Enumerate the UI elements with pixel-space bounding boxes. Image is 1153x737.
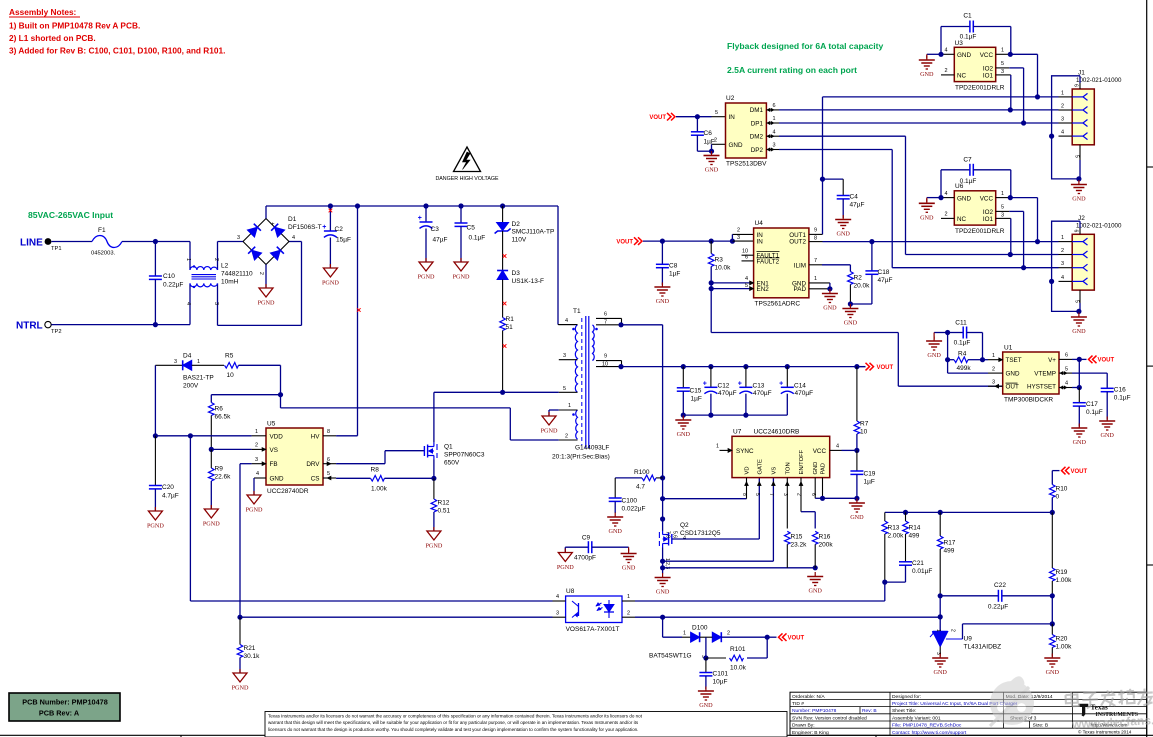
capacitor C20	[154, 436, 156, 486]
pin U6.4 GND	[941, 197, 954, 199]
svg-text:3: 3	[737, 235, 740, 241]
svg-text:7,8: 7,8	[665, 531, 671, 538]
pin U3.5 IO2	[996, 67, 1010, 69]
svg-text:2: 2	[992, 366, 995, 372]
resistor R10	[1050, 485, 1056, 498]
svg-text:470µF: 470µF	[753, 390, 772, 397]
svg-text:U5: U5	[267, 421, 276, 428]
svg-text:D1: D1	[288, 216, 297, 223]
svg-text:4: 4	[945, 48, 948, 54]
svg-text:5: 5	[1065, 366, 1068, 372]
pin U8.4	[553, 600, 566, 602]
capacitor C4	[842, 179, 844, 195]
op-amp U5 UCC28740DR controller	[266, 428, 323, 485]
resistor R8	[371, 476, 385, 482]
svg-text:9: 9	[604, 354, 607, 360]
resistor R3	[710, 241, 712, 253]
svg-text:2: 2	[255, 443, 258, 449]
svg-text:warrant that this design will: warrant that this design will meet the s…	[268, 720, 639, 725]
power PGND T1 bias	[548, 412, 550, 416]
pin U4.10 FAULT1	[742, 254, 754, 256]
svg-text:Texas: Texas	[1091, 704, 1109, 712]
svg-text:5: 5	[1001, 61, 1004, 67]
svg-text:R16: R16	[819, 534, 831, 541]
svg-text:G144093LF: G144093LF	[575, 445, 609, 452]
wire L2 pin3 to bridge pin4	[218, 324, 302, 326]
svg-text:R100: R100	[634, 469, 650, 476]
svg-text:VS: VS	[771, 467, 777, 475]
svg-text:470µF: 470µF	[718, 390, 737, 397]
svg-text:PGND: PGND	[258, 300, 275, 307]
pin U2.3 DP2	[766, 149, 779, 151]
svg-text:NC: NC	[957, 216, 967, 223]
svg-text:EN/TOFF: EN/TOFF	[799, 449, 805, 474]
svg-text:DM1: DM1	[750, 107, 764, 114]
svg-text:7: 7	[814, 258, 817, 264]
resistor R20	[1051, 624, 1053, 635]
svg-text:2.00k: 2.00k	[888, 533, 905, 540]
svg-text:R9: R9	[215, 466, 224, 473]
svg-text:DP1: DP1	[751, 120, 764, 127]
svg-text:C19: C19	[864, 471, 876, 478]
svg-text:8: 8	[814, 235, 817, 241]
svg-text:GND: GND	[656, 589, 670, 596]
svg-text:F1: F1	[98, 227, 106, 234]
svg-text:10: 10	[602, 362, 608, 368]
pin U2.6 DM1	[766, 109, 779, 111]
svg-text:VS: VS	[270, 447, 278, 454]
wire bias node to T1 pin2	[280, 395, 282, 408]
svg-text:R8: R8	[371, 467, 380, 474]
diode D2 TVS	[502, 206, 504, 223]
pin U7.3 TON	[786, 478, 788, 529]
svg-text:10.0k: 10.0k	[715, 265, 732, 272]
svg-text:GND: GND	[920, 214, 934, 221]
ground GND U9	[939, 654, 941, 659]
diode bridge D1	[243, 219, 289, 265]
svg-text:6: 6	[604, 312, 607, 318]
svg-text:1µF: 1µF	[691, 396, 702, 403]
wire F1 to L2 pin1	[122, 241, 190, 243]
diode D3	[497, 270, 508, 272]
svg-text:VCC: VCC	[980, 195, 994, 202]
capacitor C11	[948, 332, 964, 334]
svg-text:0.1µF: 0.1µF	[469, 235, 486, 242]
power flag VOUT U4	[634, 237, 638, 245]
pin U7.4 VCC	[830, 449, 842, 451]
svg-text:D3: D3	[512, 270, 521, 277]
capacitor C13	[745, 367, 747, 388]
svg-text:4: 4	[745, 276, 748, 282]
TI logo	[1079, 704, 1088, 716]
power PGND bridge	[265, 284, 267, 288]
svg-text:0.01µF: 0.01µF	[912, 568, 932, 575]
svg-text:6: 6	[745, 254, 748, 260]
ground GND U4	[829, 289, 831, 294]
svg-text:DM2: DM2	[750, 134, 764, 141]
svg-text:5: 5	[745, 283, 748, 289]
svg-text:IO2: IO2	[983, 65, 994, 72]
svg-text:VOUT: VOUT	[1098, 358, 1115, 364]
wire U3 VCC to J1 pin1	[1010, 53, 1037, 55]
resistor R4	[947, 333, 949, 374]
svg-text:VOUT: VOUT	[616, 239, 633, 245]
svg-text:499k: 499k	[957, 365, 972, 372]
wire VCC node	[854, 448, 859, 453]
resistor R16	[812, 531, 818, 544]
wire DRV to Q1 gate	[336, 463, 385, 465]
svg-text:ILIM: ILIM	[794, 262, 806, 269]
pin T1.9 and T1.10	[596, 360, 622, 362]
svg-text:6: 6	[1065, 353, 1068, 359]
svg-text:PGND: PGND	[453, 274, 470, 281]
svg-text:PGND: PGND	[232, 685, 249, 692]
ground GND J2	[1078, 313, 1080, 318]
capacitor C9	[565, 546, 588, 548]
svg-text:1: 1	[1001, 48, 1004, 54]
svg-text:C8: C8	[669, 263, 678, 270]
svg-text:NC: NC	[957, 72, 967, 79]
svg-text:1: 1	[197, 359, 200, 365]
svg-text:licensors do not warrant that: licensors do not warrant that the design…	[268, 727, 638, 732]
svg-text:EN2: EN2	[757, 286, 770, 293]
svg-text:Assembly Notes:: Assembly Notes:	[9, 7, 76, 17]
inductor L2 common-mode choke	[189, 242, 191, 271]
svg-text:2: 2	[945, 68, 948, 74]
svg-text:470µF: 470µF	[795, 390, 814, 397]
wire D100 mid node	[705, 637, 707, 658]
pin U5.8 HV	[323, 435, 336, 437]
svg-text:3: 3	[556, 610, 559, 616]
svg-text:Flyback designed for 6A total: Flyback designed for 6A total capacity	[727, 41, 884, 51]
transistor Q2 CSD17312Q5	[671, 534, 673, 544]
svg-text:GND: GND	[836, 231, 850, 238]
svg-text:GND: GND	[608, 528, 622, 535]
svg-text:0.022µF: 0.022µF	[622, 506, 646, 513]
svg-text:R101: R101	[730, 646, 746, 653]
wire VS sense row	[663, 560, 774, 562]
svg-text:PCB Rev: A: PCB Rev: A	[39, 708, 80, 717]
svg-text:+: +	[271, 222, 275, 228]
wire U6 VCC to J2 pin1	[1010, 197, 1037, 199]
svg-text:SMCJ110A-TP: SMCJ110A-TP	[512, 229, 555, 236]
ground GND C16	[1106, 417, 1108, 422]
svg-text:0.22µF: 0.22µF	[988, 604, 1008, 611]
svg-text:1: 1	[1061, 90, 1064, 96]
svg-text:PAD: PAD	[821, 463, 827, 475]
power PGND R12	[433, 527, 435, 531]
svg-text:1: 1	[185, 258, 191, 261]
pin U1.2 GND	[988, 372, 1003, 374]
svg-text:2: 2	[714, 138, 717, 144]
svg-text:R15: R15	[791, 534, 803, 541]
pin U6.3 IO1	[996, 217, 1011, 219]
svg-text:BAS21-TP: BAS21-TP	[183, 375, 214, 382]
svg-text:D2: D2	[512, 221, 521, 228]
svg-text:R2: R2	[854, 275, 863, 282]
capacitor C14	[786, 367, 788, 388]
svg-text:1002-021-01000: 1002-021-01000	[1076, 77, 1122, 84]
svg-text:R17: R17	[944, 540, 956, 547]
svg-text:GND: GND	[1073, 439, 1087, 446]
svg-text:TMP300BIDCKR: TMP300BIDCKR	[1004, 397, 1053, 404]
svg-text:C7: C7	[963, 157, 972, 164]
svg-text:TID #: TID #	[792, 701, 804, 707]
watermark logo circle	[990, 676, 1034, 726]
svg-text:VTEMP: VTEMP	[1034, 370, 1056, 377]
svg-text:499: 499	[909, 533, 920, 540]
svg-text:R21: R21	[244, 645, 256, 652]
svg-text:1: 1	[935, 629, 941, 632]
pin U8.1	[622, 600, 635, 602]
wire HV rail	[265, 206, 267, 219]
svg-text:TPD2E001DRLR: TPD2E001DRLR	[955, 85, 1005, 92]
svg-text:R5: R5	[225, 353, 234, 360]
wire J1 shield loop	[1079, 83, 1081, 89]
svg-text:7: 7	[604, 320, 607, 326]
svg-text:1: 1	[683, 631, 686, 637]
svg-text:C10: C10	[163, 273, 175, 280]
svg-text:0.51: 0.51	[438, 508, 451, 515]
svg-text:GND: GND	[808, 588, 822, 595]
svg-text:VOUT: VOUT	[788, 636, 805, 642]
svg-text:R20: R20	[1056, 636, 1068, 643]
svg-text:GND: GND	[1006, 370, 1020, 377]
resistor R17	[939, 512, 941, 536]
svg-text:23.2k: 23.2k	[791, 542, 808, 549]
svg-text:650V: 650V	[444, 460, 460, 467]
capacitor C21	[899, 561, 912, 563]
optocoupler U8 VOS617A	[566, 596, 622, 623]
wire U8 pin2 row	[635, 616, 940, 618]
capacitor C16	[1101, 387, 1114, 389]
svg-text:Rev: B: Rev: B	[862, 708, 877, 714]
svg-text:R6: R6	[215, 406, 224, 413]
svg-text:0.1µF: 0.1µF	[954, 340, 971, 347]
svg-text:C9: C9	[582, 535, 591, 542]
svg-text:4: 4	[773, 129, 776, 135]
resistor R15	[785, 531, 791, 544]
svg-text:GND: GND	[850, 514, 864, 521]
svg-text:4: 4	[565, 318, 568, 324]
wire U6 GND to ground	[927, 197, 941, 199]
svg-text:5,6: 5,6	[672, 531, 678, 538]
svg-text:744821110: 744821110	[221, 271, 253, 278]
svg-text:DP2: DP2	[751, 147, 764, 154]
pin U4.1 GND	[809, 282, 830, 284]
power PGND C5	[460, 258, 462, 262]
svg-text:U8: U8	[566, 588, 575, 595]
svg-text:D100: D100	[692, 625, 708, 632]
svg-text:DANGER HIGH VOLTAGE: DANGER HIGH VOLTAGE	[435, 176, 499, 182]
svg-text:4.7: 4.7	[636, 484, 645, 491]
pin U1.5 VTEMP	[1059, 372, 1072, 374]
svg-text:PGND: PGND	[557, 564, 574, 571]
svg-text:110V: 110V	[512, 237, 527, 244]
svg-text:GND: GND	[957, 52, 971, 59]
svg-text:3) Added for Rev B: C100, C101: 3) Added for Rev B: C100, C101, D100, R1…	[9, 46, 225, 56]
wire VOUT rail from T1 910	[618, 364, 623, 369]
pin U4.9 OUT1	[809, 233, 823, 235]
pin U4.4 EN1	[711, 282, 753, 284]
svg-text:C11: C11	[955, 320, 967, 327]
svg-text:C20: C20	[162, 484, 174, 491]
pin U3.2 NC	[941, 74, 954, 76]
svg-text:2: 2	[950, 629, 956, 632]
svg-text:GATE: GATE	[757, 459, 763, 474]
svg-text:UCC28740DR: UCC28740DR	[267, 488, 309, 495]
svg-text:4.7µF: 4.7µF	[162, 493, 179, 500]
svg-text:C17: C17	[1086, 401, 1098, 408]
svg-text:C12: C12	[718, 382, 730, 389]
svg-text:DRV: DRV	[306, 461, 320, 468]
pin U3.3 IO1	[996, 74, 1011, 76]
svg-text:CSD17312Q5: CSD17312Q5	[680, 530, 721, 537]
capacitor C17	[1078, 388, 1080, 403]
capacitor C15	[682, 367, 684, 388]
svg-text:HYSTSET: HYSTSET	[1027, 384, 1056, 391]
capacitor C5	[460, 206, 462, 223]
svg-text:1: 1	[255, 429, 258, 435]
svg-text:22.6k: 22.6k	[215, 474, 232, 481]
power flag VOUT R10	[1066, 467, 1070, 475]
wire C11 left to GND	[945, 330, 950, 335]
svg-text:TON: TON	[785, 462, 791, 474]
svg-text:5: 5	[1073, 155, 1079, 158]
svg-text:VOUT: VOUT	[649, 115, 666, 121]
wire Q2 gate to U7 GATE	[672, 538, 760, 540]
svg-text:Number: PMP10478: Number: PMP10478	[792, 708, 837, 714]
svg-text:FAULT2: FAULT2	[757, 258, 780, 265]
svg-text:TPS2561ADRC: TPS2561ADRC	[755, 301, 801, 308]
wire U8 pin1 to feedback node	[635, 600, 885, 602]
power flag VOUT D100	[767, 636, 776, 638]
transistor U9 TL431AIDBZ	[933, 631, 948, 633]
svg-text:15µF: 15µF	[336, 237, 351, 244]
svg-text:U9: U9	[964, 636, 973, 643]
pin U4.8 OUT2	[809, 241, 823, 243]
svg-text:6: 6	[1073, 230, 1079, 233]
op-amp U2 TPS2513DBV	[726, 103, 767, 158]
svg-text:+: +	[779, 381, 783, 388]
svg-text:3: 3	[174, 359, 177, 365]
danger high voltage symbol	[454, 147, 481, 172]
wire U4 IN2 jog	[732, 233, 753, 235]
wire feedback top row	[1050, 510, 1055, 515]
power PGND C20	[154, 507, 156, 511]
watermark text	[1065, 688, 1153, 710]
svg-text:U3: U3	[955, 40, 964, 47]
power PGND C3	[425, 258, 427, 262]
svg-text:2: 2	[796, 493, 802, 496]
svg-text:5: 5	[1073, 300, 1079, 303]
capacitor C3	[425, 206, 427, 222]
svg-text:5: 5	[563, 386, 566, 392]
svg-text:3: 3	[1061, 261, 1064, 267]
svg-text:C14: C14	[794, 382, 806, 389]
svg-text:GND: GND	[920, 71, 934, 78]
svg-text:R4: R4	[958, 351, 967, 358]
wire DP1 to J1 pin3	[779, 122, 1059, 124]
wire T1 pin1 to PGND	[549, 409, 559, 411]
wire C22 row	[938, 593, 943, 598]
svg-text:1µF: 1µF	[669, 271, 680, 278]
svg-text:GND: GND	[270, 476, 284, 483]
svg-text:20:1:3(Pri:Sec:Bias): 20:1:3(Pri:Sec:Bias)	[552, 454, 610, 461]
svg-text:TSET: TSET	[1006, 357, 1022, 364]
diode D4	[155, 364, 182, 366]
svg-text:TL431AIDBZ: TL431AIDBZ	[964, 644, 1002, 651]
svg-text:LINE: LINE	[20, 238, 43, 249]
pin T1.4	[559, 324, 578, 326]
power flag VOUT U1	[1072, 358, 1087, 360]
wire C11 right to TSET	[982, 333, 984, 360]
wire VOUT to U4 IN	[643, 240, 732, 242]
svg-text:2: 2	[1061, 104, 1064, 110]
svg-text:OUT2: OUT2	[789, 239, 806, 246]
wire R2 to C18 ground	[850, 303, 872, 305]
ground GND C4	[842, 215, 844, 220]
svg-text:10: 10	[227, 372, 235, 379]
ground GND C9	[628, 549, 630, 554]
svg-text:1: 1	[1001, 191, 1004, 197]
wire Q2 source	[662, 548, 664, 574]
svg-text:C1: C1	[963, 13, 972, 20]
wire DM1 to J1 pin2	[779, 109, 1059, 111]
pin U1.1 TSET	[988, 359, 1003, 361]
wire U3 IO1 to J1 pin2	[1010, 75, 1012, 110]
resistor R13	[884, 512, 886, 521]
svg-text:GND: GND	[729, 142, 743, 149]
wire HV net	[336, 435, 357, 437]
pin U5.1 VDD	[252, 435, 266, 437]
power flag VOUT rail	[857, 366, 866, 368]
svg-text:R10: R10	[1056, 486, 1068, 493]
svg-text:10: 10	[860, 429, 868, 436]
svg-text:GND: GND	[622, 565, 636, 572]
capacitor C10	[154, 242, 156, 277]
svg-text:6: 6	[773, 103, 776, 109]
svg-text:6: 6	[1073, 84, 1079, 87]
power flag VOUT U2	[667, 113, 671, 121]
svg-text:C4: C4	[850, 194, 859, 201]
svg-text:3: 3	[213, 302, 219, 305]
wire J2 shield loop	[1079, 228, 1081, 234]
svg-text:Q1: Q1	[444, 444, 453, 451]
svg-text:6: 6	[810, 493, 816, 496]
svg-text:Assembly Variant: 001: Assembly Variant: 001	[892, 715, 941, 721]
pin U5.4 GND	[254, 477, 266, 479]
svg-text:US1K-13-F: US1K-13-F	[512, 278, 545, 285]
svg-text:2: 2	[1061, 248, 1064, 254]
svg-text:5: 5	[715, 110, 718, 116]
svg-text:4700pF: 4700pF	[574, 555, 596, 562]
pin U7.6 GND	[814, 478, 816, 499]
resistor R7	[856, 367, 858, 421]
ground GND J1	[1078, 180, 1080, 185]
pin U4.PAD	[809, 288, 830, 290]
svg-text:3: 3	[255, 457, 258, 463]
resistor R19	[1051, 512, 1053, 568]
capacitor C12	[710, 367, 712, 388]
svg-text:VOUT: VOUT	[1071, 469, 1088, 475]
svg-text:0452003.: 0452003.	[91, 251, 116, 257]
svg-text:3: 3	[237, 235, 240, 241]
svg-text:R12: R12	[438, 500, 450, 507]
wire Q1 source to R12	[433, 460, 435, 479]
pin U7.1 SYNC	[720, 449, 733, 451]
capacitor C100	[614, 478, 616, 498]
